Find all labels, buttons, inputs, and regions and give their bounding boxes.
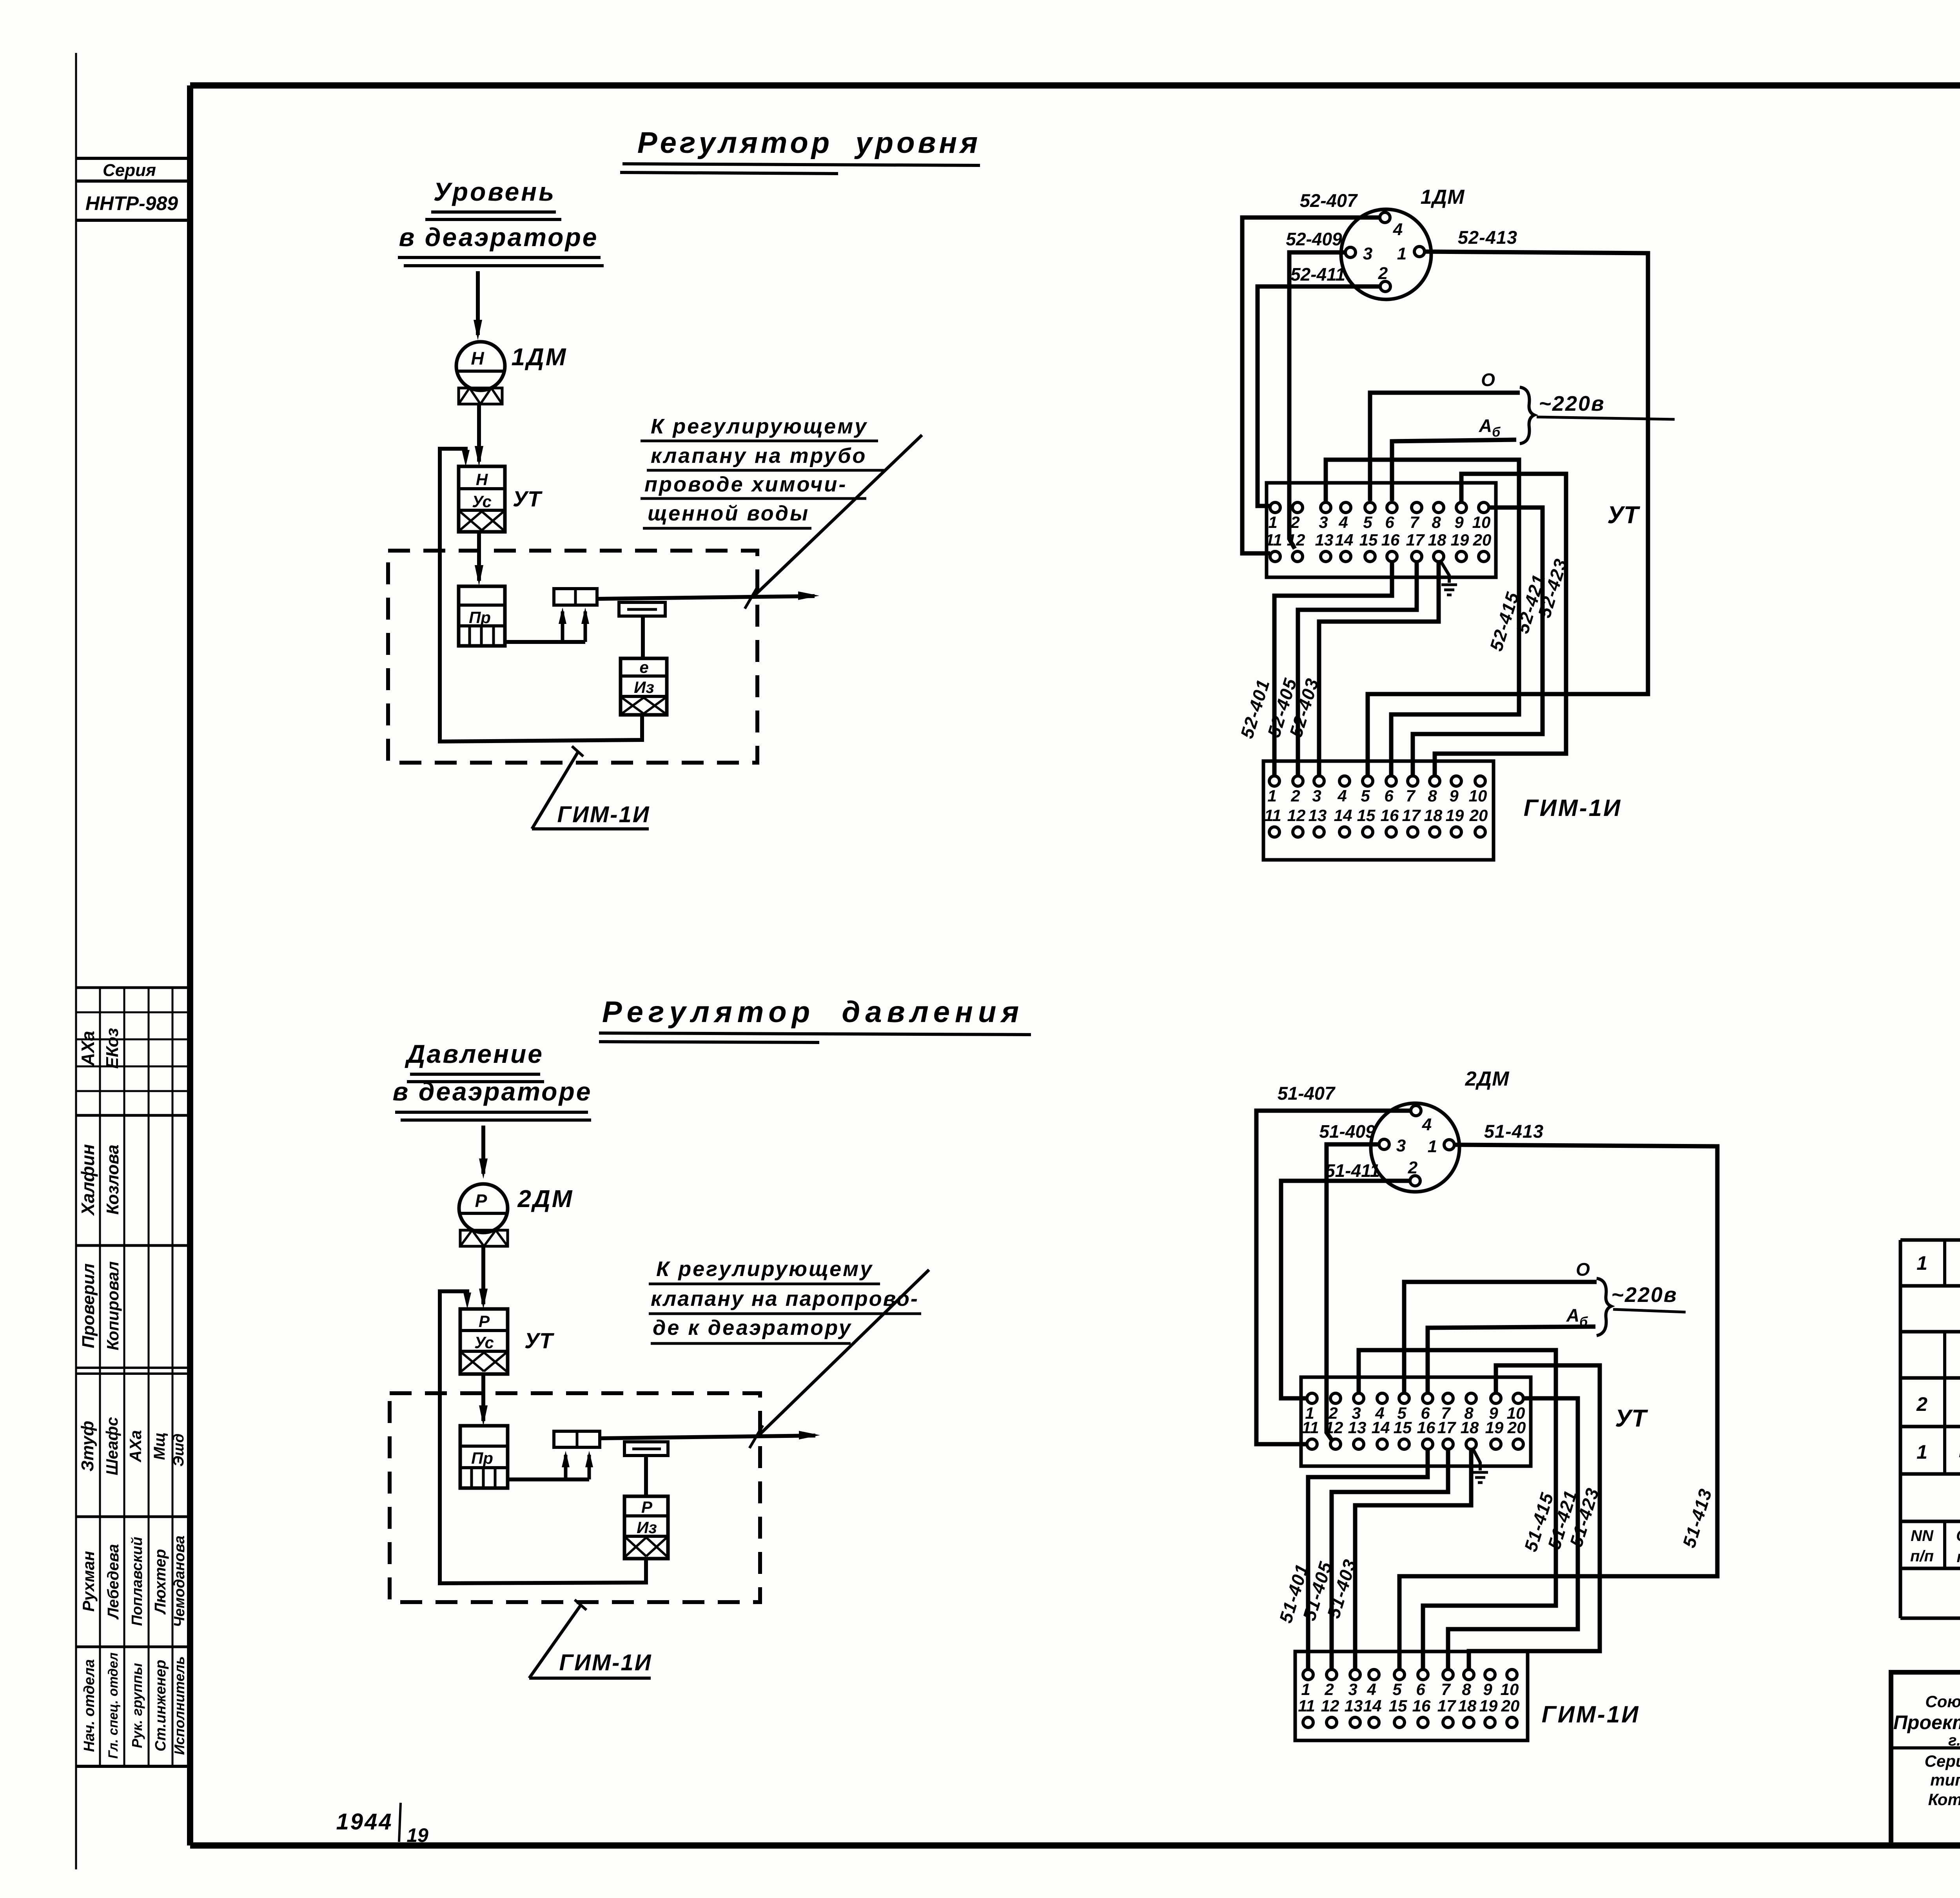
svg-text:52-409: 52-409 — [1286, 229, 1342, 249]
brace and ~220в (1) — [1520, 387, 1675, 444]
svg-text:Котельных с котлами: Котельных с котлами — [1928, 1790, 1960, 1809]
svg-text:19: 19 — [1479, 1697, 1498, 1715]
piston box (1) — [619, 602, 665, 658]
table row УТ — [1916, 1251, 1960, 1275]
svg-text:51-409: 51-409 — [1319, 1121, 1376, 1142]
svg-text:4: 4 — [1338, 513, 1348, 531]
svg-text:Чемоданова: Чемоданова — [171, 1535, 188, 1627]
svg-text:щенной воды: щенной воды — [648, 502, 809, 525]
svg-text:Н: Н — [476, 470, 488, 489]
svg-text:Уровень: Уровень — [434, 177, 556, 206]
svg-text:Пр: Пр — [471, 1449, 493, 1467]
svg-text:11: 11 — [1264, 806, 1281, 825]
wire УТ to Пр (1) — [475, 532, 483, 586]
svg-text:~220в: ~220в — [1611, 1283, 1677, 1307]
svg-text:клапану на паропрово-: клапану на паропрово- — [651, 1287, 919, 1311]
svg-text:5: 5 — [1363, 513, 1372, 531]
svg-text:1: 1 — [1916, 1252, 1927, 1274]
svg-text:51-411: 51-411 — [1325, 1160, 1380, 1181]
svg-text:1: 1 — [1397, 244, 1406, 263]
svg-text:3: 3 — [1363, 244, 1372, 263]
dashed boundary ГИМ (1) — [388, 551, 757, 763]
svg-text:14: 14 — [1335, 531, 1354, 549]
terminal block УТ (1) — [1265, 483, 1496, 577]
svg-text:типовых проектов.: типовых проектов. — [1930, 1771, 1960, 1789]
svg-text:Ст.инженер: Ст.инженер — [152, 1660, 169, 1751]
svg-text:6: 6 — [1385, 513, 1394, 531]
svg-text:12: 12 — [1287, 531, 1305, 549]
svg-text:УТ: УТ — [1615, 1405, 1648, 1432]
svg-text:по схеме: по схеме — [1956, 1548, 1960, 1566]
wire 52-415 (УТ3-ГИМ6) — [1326, 460, 1523, 776]
svg-text:18: 18 — [1461, 1418, 1479, 1437]
svg-text:Люхтер: Люхтер — [152, 1549, 169, 1615]
svg-text:20: 20 — [1469, 806, 1488, 825]
label ГИМ-1И (1) with leader — [532, 746, 650, 829]
svg-text:51-413: 51-413 — [1484, 1121, 1544, 1142]
svg-text:1ДМ: 1ДМ — [1421, 186, 1465, 208]
svg-text:де к деаэратору: де к деаэратору — [653, 1316, 852, 1340]
svg-text:Регулятор уровня: Регулятор уровня — [637, 126, 981, 160]
wire 51-407 — [1256, 1083, 1411, 1444]
svg-text:2: 2 — [1408, 1158, 1418, 1177]
svg-text:2: 2 — [1324, 1680, 1334, 1699]
relay block Пр (2) — [460, 1426, 508, 1488]
svg-text:г. Ленинград 1970г: г. Ленинград 1970г — [1948, 1732, 1960, 1749]
sensor 1ДМ circle — [456, 342, 505, 390]
svg-text:Нач. отдела: Нач. отдела — [81, 1659, 98, 1752]
ground at УТ18 (1) — [1440, 560, 1457, 595]
svg-text:19: 19 — [1446, 806, 1464, 825]
svg-text:Серия унифицированных: Серия унифицированных — [1925, 1752, 1960, 1770]
svg-text:1: 1 — [1267, 787, 1276, 805]
svg-text:УТ: УТ — [524, 1328, 555, 1353]
wire sensor to УТ (2) — [479, 1246, 488, 1309]
svg-text:Эшд: Эшд — [171, 1434, 187, 1467]
svg-text:17: 17 — [1437, 1418, 1456, 1437]
svg-text:14: 14 — [1334, 806, 1352, 825]
svg-text:Шеафс: Шеафс — [103, 1417, 121, 1476]
jet pipe box pair (2) — [554, 1431, 600, 1447]
svg-text:Мщ: Мщ — [151, 1432, 168, 1460]
svg-text:9: 9 — [1483, 1680, 1492, 1699]
svg-text:1ДМ: 1ДМ — [512, 344, 568, 371]
svg-text:8: 8 — [1462, 1680, 1471, 1699]
svg-text:~220в: ~220в — [1539, 392, 1605, 415]
svg-text:4: 4 — [1393, 220, 1403, 239]
terminal block ГИМ-1И (2) — [1295, 1651, 1528, 1740]
svg-text:3: 3 — [1312, 787, 1321, 805]
svg-text:ЕКоз: ЕКоз — [103, 1028, 122, 1069]
svg-text:АХа: АХа — [78, 1031, 98, 1066]
wire 51-405 (УТ17-ГИМ2) — [1299, 1449, 1448, 1670]
piston box (2) — [624, 1442, 668, 1496]
title block: institute cell — [1891, 1674, 1960, 1828]
amplifier block УТ (2) — [460, 1309, 508, 1374]
feedback wire (1) — [440, 449, 642, 741]
svg-text:в деаэраторе: в деаэраторе — [399, 223, 599, 252]
ground at УТ18 (2) — [1472, 1448, 1488, 1483]
wire 51-403 (УТ18-ГИМ3) — [1323, 1449, 1471, 1670]
svg-text:10: 10 — [1469, 787, 1487, 805]
wire УТ to Пр (2) — [479, 1374, 488, 1426]
svg-text:9: 9 — [1454, 513, 1464, 531]
svg-text:16: 16 — [1417, 1418, 1436, 1437]
wire О to УТ-5 — [1370, 370, 1520, 501]
actuator block е/Из (1) — [621, 658, 667, 715]
connector 1ДМ — [1341, 209, 1431, 299]
svg-text:18: 18 — [1424, 806, 1443, 825]
wire Пр to jets (1) — [505, 607, 589, 642]
svg-text:Ус: Ус — [472, 492, 492, 511]
svg-text:8: 8 — [1432, 513, 1441, 531]
svg-text:Обознач.: Обознач. — [1956, 1527, 1960, 1545]
svg-text:1944: 1944 — [336, 1809, 393, 1835]
svg-text:Халфин: Халфин — [78, 1144, 98, 1216]
table header row — [1910, 1527, 1960, 1566]
svg-text:NN: NN — [1911, 1527, 1934, 1545]
svg-text:15: 15 — [1359, 531, 1378, 549]
svg-text:51-407: 51-407 — [1278, 1083, 1336, 1104]
svg-text:17: 17 — [1406, 531, 1425, 549]
svg-text:2: 2 — [1378, 264, 1388, 283]
svg-text:Р: Р — [641, 1498, 653, 1516]
svg-text:2ДМ: 2ДМ — [1465, 1068, 1510, 1090]
svg-text:ГИМ-1И: ГИМ-1И — [1524, 795, 1622, 821]
svg-text:Козлова: Козлова — [103, 1145, 122, 1215]
sensor base hatch (2) — [460, 1230, 508, 1246]
wire: level input arrow — [474, 271, 482, 340]
actuator block Р/Из (2) — [624, 1496, 668, 1559]
svg-text:проводе химочи-: проводе химочи- — [644, 473, 847, 496]
svg-text:4: 4 — [1367, 1680, 1376, 1699]
wire 52-401 (УТ16-ГИМ1) — [1236, 562, 1392, 776]
svg-text:Из: Из — [634, 678, 654, 696]
svg-text:Лебедева: Лебедева — [105, 1544, 122, 1620]
svg-text:Серия: Серия — [103, 161, 156, 180]
wire 52-405 (УТ17-ГИМ2) — [1263, 562, 1417, 776]
svg-text:Гл. спец. отдел: Гл. спец. отдел — [106, 1652, 121, 1758]
svg-text:Р: Р — [479, 1312, 490, 1331]
svg-text:16: 16 — [1381, 806, 1399, 825]
svg-text:16: 16 — [1412, 1697, 1431, 1715]
wire 52-423 (УТ9-ГИМ8) — [1435, 474, 1571, 776]
amplifier block УТ (1) — [459, 466, 505, 532]
svg-text:5: 5 — [1392, 1680, 1402, 1699]
connector 2ДМ — [1371, 1103, 1459, 1192]
svg-text:Союзмашстрой проект: Союзмашстрой проект — [1925, 1692, 1960, 1711]
svg-text:Исполнитель: Исполнитель — [171, 1656, 187, 1755]
svg-text:К регулирующему: К регулирующему — [656, 1257, 873, 1281]
sensor base hatch — [459, 388, 502, 404]
svg-text:1: 1 — [1301, 1680, 1310, 1699]
svg-text:е: е — [639, 658, 648, 676]
signature attribute table (rotated) — [76, 220, 190, 1845]
wire 52-409 — [1286, 229, 1345, 549]
series label box — [76, 158, 190, 220]
svg-text:7: 7 — [1406, 787, 1416, 805]
svg-text:2: 2 — [1916, 1393, 1927, 1415]
table row ДМ — [1916, 1383, 1960, 1425]
svg-text:52-407: 52-407 — [1300, 190, 1358, 211]
svg-text:Проектный институт№1: Проектный институт№1 — [1893, 1711, 1960, 1733]
wire 51-413 — [1399, 1121, 1717, 1670]
svg-text:8: 8 — [1428, 787, 1437, 805]
svg-text:15: 15 — [1357, 806, 1376, 825]
svg-text:19: 19 — [1451, 531, 1469, 549]
svg-text:3: 3 — [1348, 1680, 1357, 1699]
wire 52-403 (УТ18-ГИМ3) — [1285, 562, 1439, 776]
svg-text:2: 2 — [1290, 787, 1300, 805]
svg-text:12: 12 — [1287, 806, 1306, 825]
wire: pressure input arrow — [479, 1126, 488, 1179]
svg-text:13: 13 — [1348, 1418, 1367, 1437]
sensor 2ДМ circle — [459, 1184, 508, 1233]
svg-text:п/п: п/п — [1910, 1548, 1934, 1565]
svg-text:12: 12 — [1325, 1418, 1343, 1437]
svg-text:УТ: УТ — [1607, 502, 1641, 529]
svg-text:Зтуф: Зтуф — [78, 1421, 97, 1472]
svg-text:Н: Н — [471, 348, 484, 368]
svg-text:4: 4 — [1337, 787, 1347, 805]
wire Аб to УТ-6 — [1392, 415, 1516, 501]
svg-text:ННТР-989: ННТР-989 — [85, 192, 178, 214]
svg-text:АХа: АХа — [126, 1430, 145, 1463]
svg-text:клапану на трубо: клапану на трубо — [651, 444, 867, 468]
svg-text:13: 13 — [1315, 531, 1334, 549]
title: Регулятор уровня — [620, 126, 981, 174]
svg-text:15: 15 — [1389, 1697, 1407, 1715]
svg-text:12: 12 — [1321, 1697, 1339, 1715]
svg-text:11: 11 — [1298, 1697, 1315, 1715]
wire О to УТ-5 (2) — [1404, 1259, 1597, 1393]
note text to valve (1) — [641, 415, 922, 597]
svg-text:15: 15 — [1394, 1418, 1412, 1437]
svg-text:17: 17 — [1437, 1697, 1456, 1715]
wire sensor to УТ — [475, 404, 483, 466]
svg-text:О: О — [1576, 1259, 1590, 1280]
svg-text:3: 3 — [1396, 1136, 1406, 1155]
svg-text:Р: Р — [475, 1191, 487, 1211]
svg-text:14: 14 — [1363, 1697, 1382, 1715]
svg-text:2: 2 — [1290, 513, 1299, 531]
svg-text:Пр: Пр — [469, 608, 491, 627]
svg-text:ГИМ-1И: ГИМ-1И — [1542, 1701, 1640, 1728]
svg-text:2ДМ: 2ДМ — [517, 1186, 574, 1213]
svg-text:20: 20 — [1507, 1418, 1526, 1437]
wire Аб to УТ-6 (2) — [1428, 1305, 1595, 1393]
svg-text:7: 7 — [1441, 1680, 1451, 1699]
svg-text:ГИМ-1И: ГИМ-1И — [559, 1650, 652, 1675]
svg-text:Рухман: Рухман — [79, 1551, 98, 1612]
svg-text:10: 10 — [1501, 1680, 1519, 1699]
wire 52-411 — [1258, 264, 1380, 506]
title block frame — [1891, 1672, 1960, 1845]
svg-text:Проверил: Проверил — [79, 1264, 98, 1348]
svg-text:3: 3 — [1319, 513, 1328, 531]
svg-text:К регулирующему: К регулирующему — [651, 415, 868, 438]
archive number 1944/19 — [336, 1803, 428, 1846]
wire 51-409 — [1319, 1121, 1379, 1441]
feedback wire (2) — [440, 1291, 646, 1583]
svg-text:5: 5 — [1361, 787, 1370, 805]
svg-text:1: 1 — [1268, 513, 1277, 531]
brace and ~220в (2) — [1597, 1278, 1686, 1336]
svg-text:20: 20 — [1473, 531, 1492, 549]
svg-text:11: 11 — [1302, 1418, 1319, 1437]
svg-text:13: 13 — [1308, 806, 1327, 825]
svg-text:в деаэраторе: в деаэраторе — [393, 1077, 592, 1106]
svg-text:Из: Из — [637, 1518, 657, 1537]
svg-text:10: 10 — [1472, 513, 1491, 531]
wire 51-423 (УТ9-ГИМ8) — [1469, 1365, 1603, 1670]
terminal block ГИМ-1И (1) — [1263, 761, 1494, 860]
output line to valve (1) — [597, 586, 819, 609]
wire 51-411 — [1281, 1160, 1410, 1398]
svg-text:ГИМ-1И: ГИМ-1И — [557, 802, 650, 827]
svg-text:6: 6 — [1384, 787, 1394, 805]
svg-text:1: 1 — [1916, 1441, 1927, 1463]
apparatus list table — [1900, 1240, 1960, 1618]
wire 51-421 (УТ10-ГИМ7) — [1448, 1398, 1581, 1670]
svg-text:20: 20 — [1501, 1697, 1520, 1715]
wire 51-415 (УТ3-ГИМ6) — [1359, 1350, 1557, 1670]
node label: Давление в деаэраторе — [393, 1039, 592, 1120]
dashed boundary ГИМ (2) — [390, 1393, 760, 1602]
wire 52-413 — [1368, 227, 1648, 776]
svg-text:УТ: УТ — [513, 486, 543, 511]
svg-text:6: 6 — [1416, 1680, 1425, 1699]
svg-text:Копировал: Копировал — [103, 1261, 122, 1350]
svg-text:16: 16 — [1381, 531, 1400, 549]
svg-text:7: 7 — [1410, 513, 1419, 531]
note text to valve (2) — [649, 1257, 929, 1437]
svg-text:52-411: 52-411 — [1290, 264, 1345, 285]
svg-text:18: 18 — [1458, 1697, 1477, 1715]
svg-text:Регулятор давления: Регулятор давления — [602, 995, 1024, 1029]
node label: Уровень в деаэраторе — [398, 177, 604, 266]
svg-text:Ус: Ус — [474, 1333, 494, 1352]
svg-text:Рук. группы: Рук. группы — [129, 1663, 145, 1748]
jet pipe box pair (1) — [554, 589, 597, 605]
svg-text:9: 9 — [1449, 787, 1459, 805]
relay block Пр (1) — [459, 586, 505, 646]
svg-text:11: 11 — [1265, 531, 1282, 549]
table row ГИМ-1И — [1916, 1432, 1960, 1472]
svg-text:17: 17 — [1402, 806, 1421, 825]
label ГИМ-1И (2) with leader — [529, 1600, 652, 1678]
wire 51-401 (УТ16-ГИМ1) — [1275, 1449, 1428, 1670]
title: Регулятор давления — [599, 995, 1031, 1042]
svg-text:4: 4 — [1422, 1115, 1432, 1134]
svg-text:18: 18 — [1428, 531, 1446, 549]
svg-text:1: 1 — [1428, 1137, 1437, 1156]
svg-text:19: 19 — [1485, 1418, 1504, 1437]
output line to valve (2) — [600, 1425, 820, 1448]
svg-text:Поплавский: Поплавский — [129, 1537, 145, 1626]
svg-text:Давление: Давление — [405, 1039, 544, 1068]
svg-text:О: О — [1481, 370, 1495, 390]
wire 52-407 — [1242, 190, 1380, 553]
svg-text:13: 13 — [1345, 1697, 1363, 1715]
wire Пр to jets (2) — [508, 1451, 593, 1479]
wire 52-421 (УТ10-ГИМ7) — [1413, 508, 1549, 776]
terminal block УТ (2) — [1301, 1377, 1531, 1466]
svg-text:19: 19 — [407, 1824, 428, 1846]
svg-text:14: 14 — [1372, 1418, 1390, 1437]
left margin trim line — [75, 53, 77, 1869]
svg-text:52-413: 52-413 — [1458, 227, 1517, 248]
